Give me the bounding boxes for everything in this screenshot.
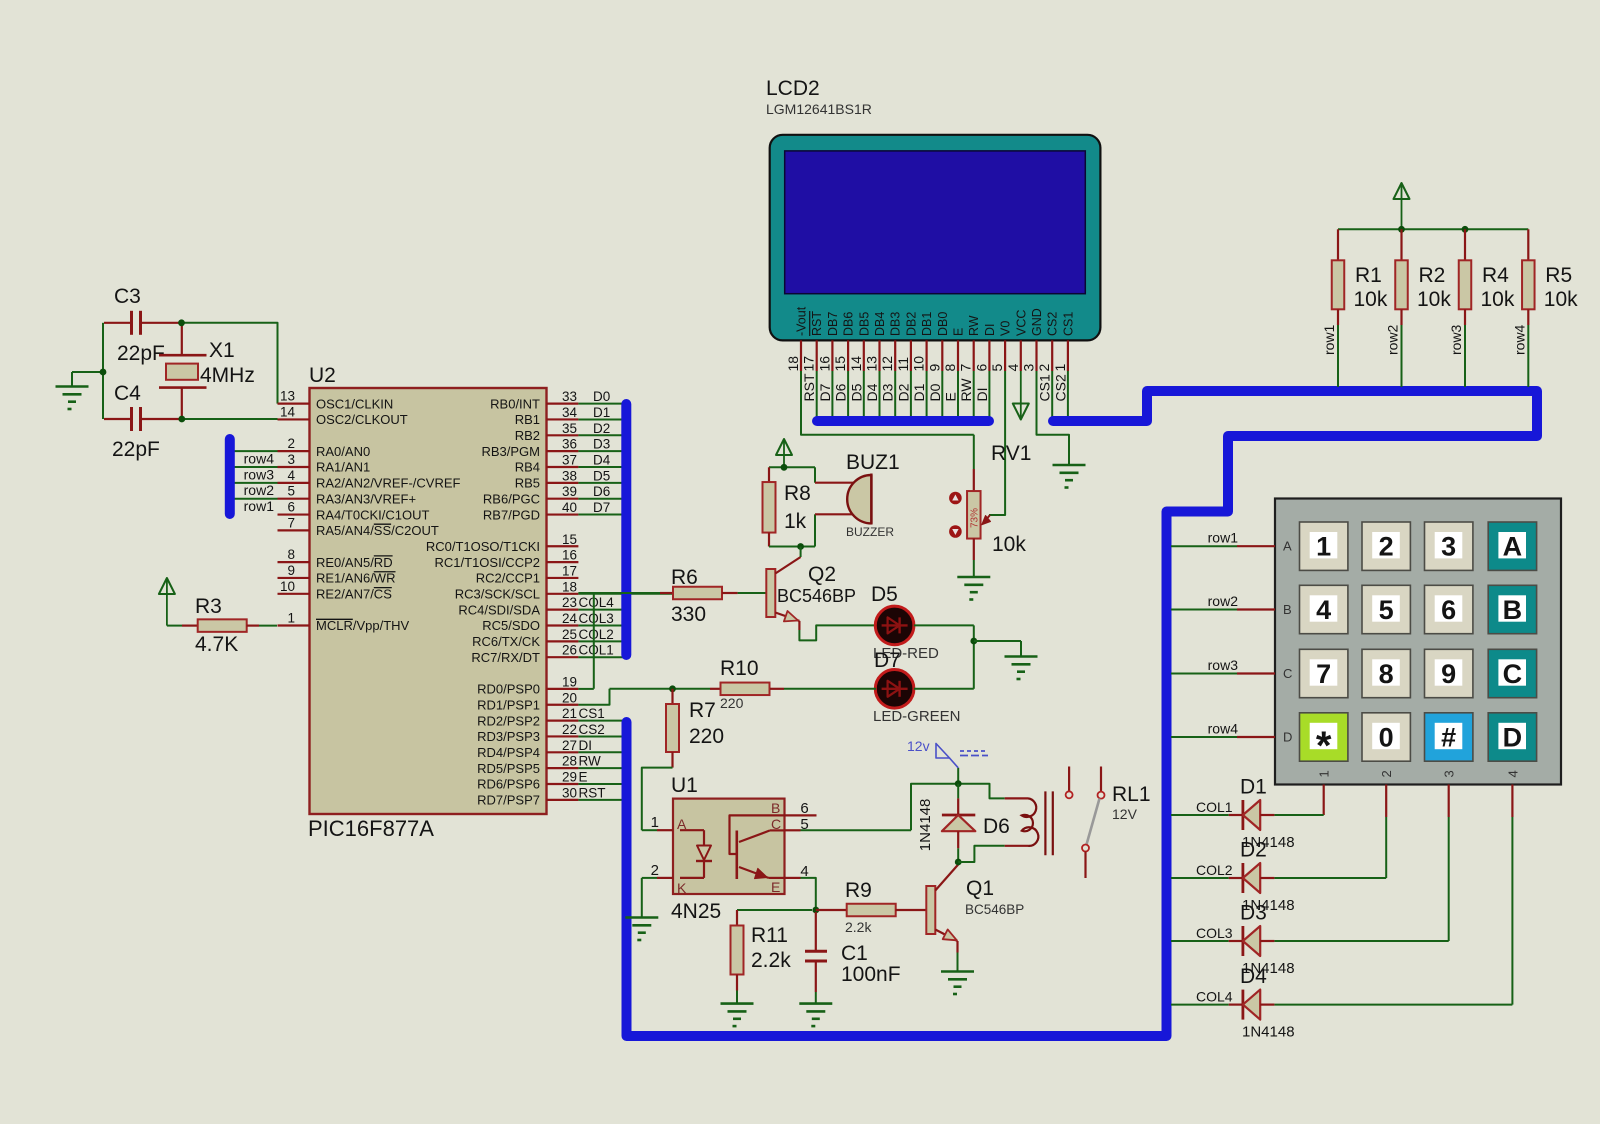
svg-text:R5: R5 [1545,264,1572,287]
label LED-RED [873,645,939,662]
svg-text:DB2: DB2 [904,312,918,336]
label R5 [1545,264,1572,287]
keypad button 7 [1300,649,1348,697]
svg-text:R6: R6 [671,566,698,589]
svg-text:C: C [1283,666,1292,681]
svg-text:CS1: CS1 [579,706,605,721]
U2 pin 38 [515,468,623,490]
svg-text:28: 28 [562,754,577,769]
svg-text:RB2: RB2 [515,428,540,443]
svg-text:4: 4 [1316,595,1331,625]
wire link pin18 to pin19 [593,594,595,689]
svg-text:RB0/INT: RB0/INT [490,396,540,411]
svg-text:35: 35 [562,421,577,436]
svg-text:1: 1 [1316,532,1331,562]
label R6 [671,566,698,589]
LCD2 screen [785,151,1086,294]
svg-text:5: 5 [1379,595,1394,625]
node rail R4 [1462,226,1469,233]
svg-text:12: 12 [879,356,895,372]
value BC546BP Q2 [777,586,856,606]
svg-text:DB5: DB5 [857,312,871,336]
svg-text:D5: D5 [871,583,898,606]
relay RL1 core [1045,791,1052,855]
U2 pin 29 [477,770,623,792]
wire D6 to coil bottom [958,846,1005,862]
keypad button 0 [1362,713,1410,761]
LCD2 pin 12 DB3 [879,312,903,417]
label U1 [671,774,698,797]
resistor R10 [710,683,876,696]
value 4MHz [200,364,255,387]
svg-text:D7: D7 [593,500,610,515]
svg-text:RD4/PSP4: RD4/PSP4 [477,745,540,760]
svg-text:row4: row4 [1511,324,1527,355]
U1 pin 6 B [771,800,817,817]
wire node to relay coil top [958,784,1005,799]
LCD2 pin 17 RST [801,311,825,417]
ground [56,387,89,410]
wire -Vout to RV1 [801,371,974,435]
svg-text:E: E [943,392,959,401]
svg-text:RW: RW [967,315,981,336]
svg-text:A: A [1503,532,1523,562]
svg-text:33: 33 [562,389,577,404]
U2 pin 28 [477,754,623,776]
svg-text:RE2/AN7/CS: RE2/AN7/CS [316,587,392,602]
net label row3 [244,466,275,482]
svg-text:LGM12641BS1R: LGM12641BS1R [766,101,872,117]
svg-text:DI: DI [983,324,997,337]
value 10k R2 [1417,288,1451,311]
svg-text:RE0/AN5/RD: RE0/AN5/RD [316,555,393,570]
net label row1 [244,498,275,514]
bus data D0-D7 COL [621,404,631,655]
svg-text:RC3/SCK/SCL: RC3/SCK/SCL [455,587,540,602]
U2 pin 25 [472,627,623,649]
LCD2 pin 18 -Vout [785,306,809,371]
U2 pin 3 [234,452,371,475]
keypad col pin 2 [1379,770,1394,777]
svg-text:6: 6 [287,500,295,515]
bus LCD data [817,416,989,426]
svg-text:1: 1 [651,814,659,831]
LCD2 pin 7 RW [958,315,982,417]
U2 pin 9 [278,563,396,586]
svg-text:1N4148: 1N4148 [1242,1024,1295,1041]
svg-text:RD6/PSP6: RD6/PSP6 [477,777,540,792]
svg-text:3: 3 [1442,770,1457,777]
value 12V RL1 [1112,806,1138,822]
value 220 R10 [720,695,744,711]
LCD2 pin 6 DI [973,324,997,418]
label RL1 [1112,783,1151,806]
svg-text:RB6/PGC: RB6/PGC [483,491,540,506]
svg-text:2: 2 [1379,532,1394,562]
power arrow pullups [1394,183,1410,229]
U1 pin 1 A [642,814,687,832]
svg-text:4: 4 [1005,364,1021,372]
svg-text:DB4: DB4 [873,312,887,336]
svg-text:4: 4 [287,468,295,483]
svg-text:RST: RST [801,373,817,401]
U2 pin 22 [477,722,623,744]
U2 pin 7 [278,515,439,538]
svg-text:LED-GREEN: LED-GREEN [873,708,961,725]
wire GND pin [1037,371,1070,465]
svg-text:D3: D3 [880,383,896,401]
U2 pin 23 [458,595,623,617]
label C1 [841,942,868,965]
node R7 top [669,685,676,692]
label D1 [1240,776,1267,799]
value BC546BP Q1 [965,902,1024,917]
svg-text:X1: X1 [209,339,235,362]
svg-text:30: 30 [562,785,577,800]
net label row3 keypad [1208,657,1239,673]
svg-text:RW: RW [958,378,974,402]
keypad row pin B [1283,602,1292,617]
label R7 [689,699,716,722]
resistor R3 [167,619,277,632]
svg-text:BUZZER: BUZZER [846,525,894,539]
svg-text:RD0/PSP0: RD0/PSP0 [477,682,540,697]
label PIC16F877A [308,816,434,841]
svg-text:RA0/AN0: RA0/AN0 [316,444,370,459]
resistor R7 [666,689,679,768]
svg-text:RC6/TX/CK: RC6/TX/CK [472,634,540,649]
svg-text:K: K [677,880,687,896]
net label COL2 [1196,862,1233,878]
wire R7 to U1 pin1 [642,768,673,831]
bus row (RA pins) [225,439,235,514]
svg-text:8: 8 [942,364,958,372]
svg-text:RD1/PSP1: RD1/PSP1 [477,697,540,712]
svg-text:100nF: 100nF [841,963,901,986]
keypad button 2 [1362,522,1410,570]
bus main loop [627,391,1538,1036]
U2 pin 8 [278,547,393,570]
value 10k RV1 [992,533,1026,556]
svg-text:18: 18 [785,356,801,372]
svg-text:D6: D6 [833,383,849,401]
svg-text:RA3/AN3/VREF+: RA3/AN3/VREF+ [316,491,416,506]
microcontroller U2 body [310,388,547,814]
U2 pin 27 [477,738,623,760]
svg-text:LCD2: LCD2 [766,77,820,100]
svg-text:VCC: VCC [1014,310,1028,336]
label BUZ1 [846,451,900,474]
label D6 [983,815,1010,838]
value 4.7K [195,633,238,656]
resistor R2 [1395,229,1408,387]
net label COL4 [1196,989,1233,1005]
keypad col pin 3 [1442,770,1457,777]
svg-text:COL1: COL1 [579,643,614,658]
LCD2 pin 13 DB4 [864,312,888,417]
capacitor C4 [104,407,182,431]
ground RV1 [957,577,990,600]
svg-text:COL4: COL4 [579,595,615,610]
svg-text:row3: row3 [1448,324,1464,355]
svg-text:12V: 12V [1112,806,1138,822]
keypad button star [1300,713,1348,768]
net label row4 [1511,324,1527,355]
svg-text:COL1: COL1 [1196,799,1233,815]
svg-text:RB4: RB4 [515,460,540,475]
svg-text:RST: RST [579,785,606,800]
U1 internal LED [680,830,712,878]
svg-text:BC546BP: BC546BP [965,902,1024,917]
svg-text:29: 29 [562,770,577,785]
svg-text:15: 15 [562,532,577,547]
diode D6 [942,784,975,862]
wire R8 bottom [769,546,815,548]
svg-text:RC7/RX/DT: RC7/RX/DT [471,650,540,665]
svg-text:row2: row2 [244,482,275,498]
svg-text:row3: row3 [244,466,275,482]
svg-text:10k: 10k [1544,288,1578,311]
svg-text:37: 37 [562,453,577,468]
svg-text:6: 6 [1441,595,1456,625]
svg-text:E: E [579,770,588,785]
power arrow R3 [159,578,175,626]
label R9 [845,879,872,902]
value 73% [970,508,981,528]
svg-text:C: C [771,816,781,832]
wire Q2 emitter to D5 [799,625,876,640]
wire pullup top rail [1338,228,1528,230]
U1 internal phototransistor [730,815,785,879]
svg-text:1: 1 [1317,770,1332,777]
capacitor C1 [805,912,827,1004]
svg-text:RL1: RL1 [1112,783,1151,806]
svg-text:D2: D2 [1240,839,1267,862]
svg-text:row1: row1 [1208,530,1239,546]
node LED ground tap [970,638,977,645]
svg-text:D4: D4 [593,453,611,468]
svg-text:1: 1 [1052,364,1068,372]
diode D4 [1171,990,1274,1020]
keypad button D [1488,713,1536,761]
svg-text:RC5/SDO: RC5/SDO [482,618,540,633]
svg-text:1: 1 [287,611,295,626]
wire ground branch [72,372,103,387]
svg-text:4: 4 [1505,770,1520,777]
svg-text:DB7: DB7 [826,312,840,336]
ground LCD [1053,465,1086,488]
LCD2 pin 16 DB7 [816,312,840,417]
svg-text:40: 40 [562,500,577,515]
wire row2 keypad [1171,609,1275,611]
value 2.2k R9 [845,919,872,935]
wire crystal bottom to pin14 [182,418,278,420]
svg-text:E: E [771,879,780,895]
svg-text:1k: 1k [784,510,807,533]
svg-text:E: E [952,328,966,336]
resistor R5 [1522,229,1535,387]
resistor R6 [578,587,766,600]
svg-text:73%: 73% [970,508,981,528]
svg-text:9: 9 [1441,659,1456,689]
wire D1 anode from keypad [1274,785,1323,816]
svg-text:10: 10 [911,356,927,372]
U2 pin 4 [234,468,461,491]
U2 pin 37 [515,453,623,475]
svg-text:4MHz: 4MHz [200,364,255,387]
U1 pin 2 K [642,862,687,918]
svg-text:COL3: COL3 [579,611,614,626]
U2 pin 18 [455,579,673,601]
svg-text:*: * [1316,724,1332,768]
svg-text:DI: DI [974,388,990,402]
svg-text:RB7/PGD: RB7/PGD [483,507,540,522]
net label row1 keypad [1208,530,1239,546]
value 1N4148 D2 [1242,897,1295,914]
keypad button 3 [1425,522,1473,570]
svg-text:2: 2 [1036,364,1052,372]
resistor R11 [731,910,744,1004]
U2 pin 16 [435,548,579,570]
svg-text:12v: 12v [907,738,930,754]
svg-text:RST: RST [810,311,824,336]
label R4 [1482,264,1509,287]
relay RL1 contacts [1066,767,1105,879]
svg-text:3: 3 [287,452,295,467]
net label row2 [244,482,275,498]
svg-text:27: 27 [562,738,577,753]
svg-text:C3: C3 [114,285,141,308]
U2 pin 34 [515,405,623,427]
svg-text:220: 220 [720,695,744,711]
svg-text:R3: R3 [195,595,222,618]
U2 pin 5 [234,484,417,507]
svg-text:B: B [1283,602,1292,617]
svg-text:D1: D1 [1240,776,1267,799]
LCD2 pin 11 DB2 [895,312,919,417]
svg-text:6: 6 [973,364,989,372]
value 22pF C4 [112,438,160,461]
svg-text:CS2: CS2 [1046,312,1060,336]
U2 pin 1 [278,611,410,634]
svg-text:D: D [1503,722,1523,752]
value 100nF [841,963,901,986]
wire V0 to RV1 wiper [989,371,1005,515]
svg-text:10k: 10k [1417,288,1451,311]
ground R11 [721,1004,754,1027]
svg-text:RV1: RV1 [991,442,1031,465]
svg-text:D: D [1283,730,1292,745]
svg-text:RC2/CCP1: RC2/CCP1 [476,571,540,586]
LCD2 pin 15 DB6 [832,312,856,417]
svg-text:10: 10 [280,579,295,594]
wire node to U1 pin5 [911,784,958,831]
ground LEDs [1005,657,1038,680]
svg-text:COL2: COL2 [579,627,614,642]
svg-text:D6: D6 [983,815,1010,838]
svg-text:22pF: 22pF [112,438,160,461]
svg-text:D2: D2 [895,383,911,401]
svg-text:16: 16 [816,356,832,372]
power arrow BUZ [776,439,792,467]
diode D3 [1171,926,1274,956]
svg-text:row1: row1 [1321,324,1337,355]
value 2.2k R11 [751,949,791,972]
svg-text:R7: R7 [689,699,716,722]
label Q2 [808,563,836,586]
keypad button hash [1425,713,1473,761]
net label row4 keypad [1208,721,1239,737]
node R8 bottom [797,543,804,550]
svg-text:5: 5 [989,364,1005,372]
label R10 [720,657,759,680]
svg-text:DI: DI [579,738,593,753]
wire D3 anode from keypad [1274,785,1448,942]
keypad row pin A [1283,539,1292,554]
wire row3 keypad [1171,673,1275,675]
node crystal top [178,319,185,326]
svg-text:23: 23 [562,595,577,610]
keypad row pin C [1283,666,1292,681]
value 1N4148 D6 [917,799,934,852]
U2 pin 33 [490,389,623,411]
svg-text:GND: GND [1030,308,1044,336]
label LGM12641BS1R [766,101,872,117]
LCD2 pin 5 V0 [989,321,1013,372]
U2 pin 24 [482,611,623,633]
transistor Q2 [766,547,800,631]
svg-text:OSC2/CLKOUT: OSC2/CLKOUT [316,412,408,427]
svg-text:Q1: Q1 [966,877,994,900]
U2 pin 30 [477,785,623,807]
wire 12v node [957,768,959,784]
svg-text:RA1/AN1: RA1/AN1 [316,460,370,475]
svg-text:D4: D4 [864,383,880,401]
svg-text:RD3/PSP3: RD3/PSP3 [477,729,540,744]
svg-text:D4: D4 [1240,965,1267,988]
svg-text:D0: D0 [593,389,610,404]
value 1k [784,510,807,533]
value 1N4148 D1 [1242,834,1295,851]
svg-text:19: 19 [562,674,577,689]
svg-text:A: A [1283,539,1292,554]
wire D2 anode from keypad [1274,785,1386,879]
buzzer BUZ1 [815,474,871,525]
U1 pin 5 C [771,816,911,833]
wire buzzer top [814,467,816,482]
capacitor C3 [104,311,182,335]
svg-text:R4: R4 [1482,264,1509,287]
LCD2 pin 3 GND [1021,308,1045,371]
ground U1 [625,918,658,941]
keypad button 9 [1425,649,1473,697]
LCD2 display body [770,135,1101,341]
label 4N25 [671,900,721,923]
wire pin20 node [610,688,711,690]
label R1 [1355,264,1382,287]
svg-text:row4: row4 [1208,721,1239,737]
value 10k R1 [1354,288,1388,311]
label D7 [874,649,901,672]
wire row1 keypad [1171,545,1275,547]
label D2 [1240,839,1267,862]
U2 pin 6 [278,500,430,523]
svg-text:2: 2 [1379,770,1394,777]
svg-text:17: 17 [801,356,817,372]
label R2 [1419,264,1446,287]
svg-text:RC4/SDI/SDA: RC4/SDI/SDA [458,602,540,617]
svg-text:4N25: 4N25 [671,900,721,923]
